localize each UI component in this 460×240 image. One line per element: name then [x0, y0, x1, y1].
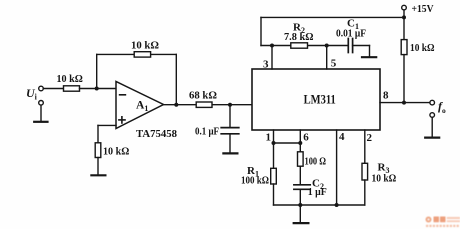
wire Ui lower terminal to ground: [40, 105, 42, 121]
wire pull-up to pin8 node: [403, 55, 405, 103]
node junction pin1: [272, 141, 276, 145]
svg-text:7.8 kΩ: 7.8 kΩ: [284, 31, 314, 43]
svg-text:10 kΩ: 10 kΩ: [57, 73, 83, 85]
node Ui reference terminal (lower): [39, 101, 44, 106]
label R3: [378, 162, 390, 176]
IC LM311 U1: [252, 69, 380, 130]
wire bottom rail: [274, 204, 365, 206]
wire C1 to ground: [353, 46, 370, 57]
wire pin 2: [364, 130, 366, 163]
wire C2 to bottom rail: [299, 189, 301, 205]
node junction pin6: [298, 141, 302, 145]
svg-text:5: 5: [331, 58, 337, 70]
wire pin 6: [299, 130, 301, 152]
op-amp A1: [116, 82, 164, 129]
resistor 10k noninverting to ground: [95, 143, 101, 158]
svg-text:10 kΩ: 10 kΩ: [410, 42, 435, 54]
label LM311: [304, 93, 336, 107]
label +15V: [412, 3, 434, 15]
node junction pin8: [402, 101, 406, 105]
label R2: [293, 22, 305, 36]
wire input resistor to op-amp inverting input: [80, 88, 117, 90]
resistor R2 7.8k: [291, 43, 308, 48]
ground (op-amp plus input): [91, 174, 105, 176]
svg-text:4: 4: [339, 131, 345, 143]
wire lower-right terminal to ground: [431, 117, 433, 136]
wire feedback top horizontal: [97, 53, 177, 55]
label pin 5: [331, 58, 337, 70]
label pin 1: [266, 132, 272, 144]
wire feedback right vertical: [175, 54, 177, 104]
label Ui: [26, 86, 38, 102]
label pin 4: [339, 131, 345, 143]
wire Ui to input resistor: [43, 88, 63, 90]
node junction C2 ground: [298, 203, 302, 207]
node Ui input terminal (upper): [39, 86, 44, 91]
label pin 3: [263, 59, 269, 71]
svg-text:100 kΩ: 100 kΩ: [241, 174, 269, 186]
svg-text:fo: fo: [438, 99, 446, 115]
svg-text:3: 3: [263, 59, 269, 71]
op-amp plus sign: [119, 117, 125, 123]
node fo output terminal: [430, 100, 435, 105]
node junction pin3: [270, 44, 274, 48]
node junction 68k to 0.1uF: [228, 103, 232, 107]
wire resistor to ground: [97, 158, 99, 175]
label R1: [247, 165, 259, 179]
label 10 kOhm plus-input: [103, 146, 129, 158]
label 10 kOhm pull-up: [410, 42, 435, 54]
wire feedback left vertical: [96, 54, 98, 88]
node +15V terminal: [402, 5, 407, 10]
wire pin1 to pin6 link: [274, 142, 301, 144]
label pin 2: [367, 132, 373, 144]
svg-text:10 kΩ: 10 kΩ: [103, 146, 129, 158]
label 0.01 uF: [336, 28, 366, 39]
svg-text:100 Ω: 100 Ω: [305, 155, 327, 167]
wire pin 5: [326, 46, 328, 70]
capacitor 0.1uF: [221, 128, 239, 134]
ground (output): [425, 137, 439, 139]
label C1: [347, 18, 359, 32]
label 100 kOhm: [241, 174, 269, 186]
resistor 10k feedback: [134, 52, 150, 57]
wire pin 1: [273, 130, 275, 168]
svg-text:LM311: LM311: [304, 93, 336, 107]
svg-text:0.01 μF: 0.01 μF: [336, 28, 366, 39]
node lower-right terminal: [430, 113, 435, 118]
node junction pin5: [325, 44, 329, 48]
wire R3 to bottom rail: [364, 180, 366, 205]
resistor R1 100k: [271, 168, 277, 184]
wire op-amp output to LM311: [164, 104, 253, 106]
label 100 Ohm: [305, 155, 327, 167]
wire terminal to junction: [403, 10, 405, 17]
svg-text:1: 1: [266, 132, 272, 144]
svg-text:+15V: +15V: [412, 3, 434, 15]
svg-text:2: 2: [367, 132, 373, 144]
svg-text:10 kΩ: 10 kΩ: [372, 173, 397, 185]
node junction output-feedback: [174, 103, 178, 107]
wire 100 ohm to C2: [299, 166, 301, 184]
wire junction to 10k pull-up: [403, 17, 405, 39]
label C2: [312, 177, 324, 191]
label 68 kOhm: [189, 89, 217, 101]
label pin 8: [383, 90, 389, 102]
capacitor C1 0.01uF: [348, 39, 352, 53]
svg-text:8: 8: [383, 90, 389, 102]
resistor 68k: [196, 102, 212, 107]
resistor R3 10k: [362, 163, 368, 180]
svg-text:0.1 μF: 0.1 μF: [195, 125, 219, 137]
wire top-left vertical: [260, 17, 262, 45]
resistor 10k input: [64, 86, 80, 91]
wire op-amp noninverting input: [98, 125, 116, 142]
wire R1 to bottom rail: [273, 184, 275, 205]
wire to capacitor 0.1uF: [229, 105, 231, 127]
svg-text:1 μF: 1 μF: [308, 186, 327, 198]
label 7.8 kOhm: [284, 31, 314, 43]
svg-text:Ui: Ui: [26, 86, 38, 102]
node junction pin4: [335, 203, 339, 207]
ground (input): [34, 121, 47, 123]
resistor 100 ohm: [298, 152, 304, 166]
wire capacitor to ground: [229, 134, 231, 153]
svg-text:10 kΩ: 10 kΩ: [131, 39, 159, 51]
wire pin 3: [271, 46, 273, 70]
wire pin 8: [380, 102, 430, 104]
label 0.1 uF: [195, 125, 219, 137]
label 1 uF: [308, 186, 327, 198]
node junction inverting input: [95, 87, 99, 91]
svg-text:68 kΩ: 68 kΩ: [189, 89, 217, 101]
label TA75458: [136, 128, 177, 140]
label fo: [438, 99, 446, 115]
label 10 kOhm input: [57, 73, 83, 85]
wire R2 level horizontal: [261, 45, 348, 47]
wire top supply horizontal: [261, 16, 404, 18]
label 10 kOhm R3: [372, 173, 397, 185]
resistor 10k pull-up: [401, 40, 407, 55]
ground (bottom rail): [294, 222, 309, 224]
svg-text:TA75458: TA75458: [136, 128, 177, 140]
label A1: [136, 100, 148, 114]
wire bottom rail to ground: [299, 205, 301, 222]
svg-text:6: 6: [303, 132, 309, 144]
label pin 6: [303, 132, 309, 144]
wire pin 4: [336, 130, 338, 205]
op-amp minus sign: [120, 94, 126, 96]
label 10 kOhm feedback: [131, 39, 159, 51]
capacitor C2 1uF: [294, 185, 310, 190]
ground (C1): [362, 56, 376, 58]
node junction +15V: [402, 15, 406, 19]
ground (0.1uF): [223, 152, 237, 154]
watermark logo: [426, 217, 460, 228]
